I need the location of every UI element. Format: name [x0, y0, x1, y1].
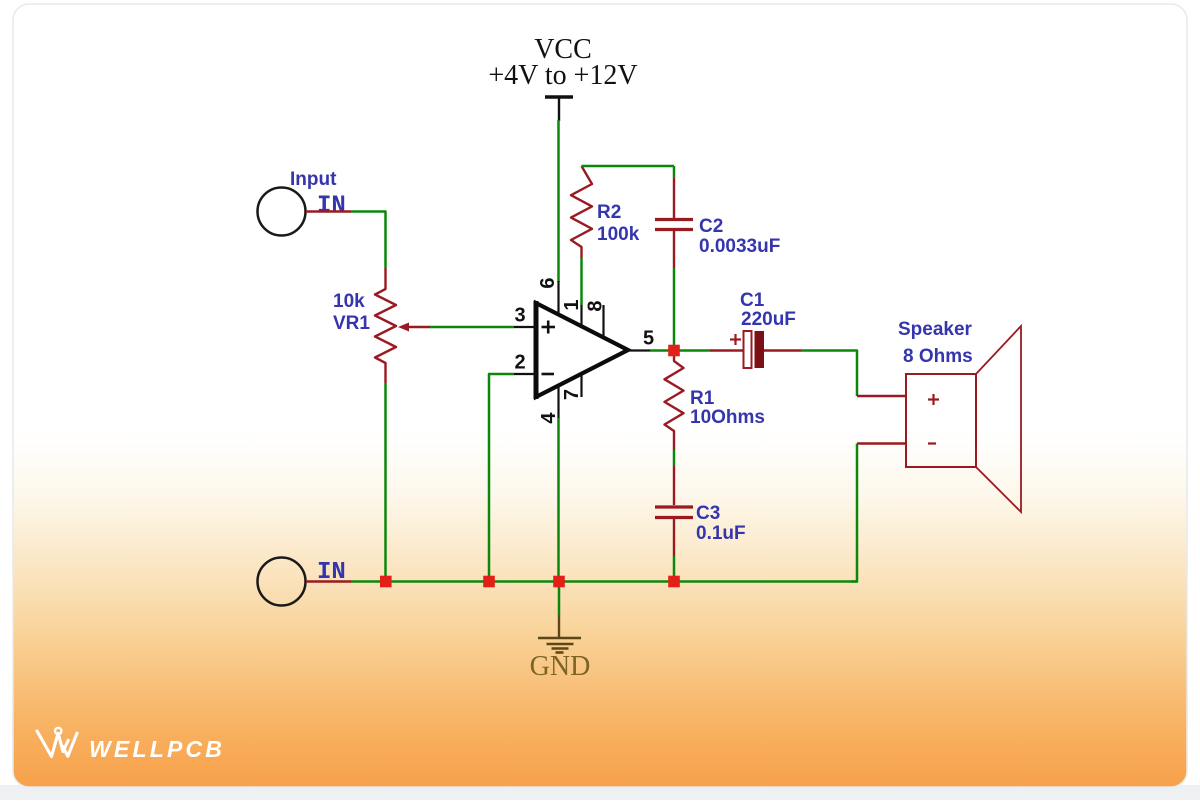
pin 1 stub [580, 304, 582, 326]
svg-text:5: 5 [643, 328, 654, 350]
input terminal circle top [258, 188, 306, 236]
node rail junction C3 [668, 576, 680, 588]
svg-text:C2: C2 [699, 216, 723, 237]
wire GND stem green [558, 582, 561, 616]
svg-text:2: 2 [514, 352, 525, 374]
wire top feedback horizontal [582, 165, 675, 168]
wire R1 to C3 [673, 450, 676, 466]
VR1 wiper arrow [398, 323, 430, 332]
wire pin 5 to node [650, 349, 669, 352]
wire pin 4 to rail [557, 418, 560, 582]
wire VCC vertical to pin 6 [557, 120, 560, 282]
op-amp plus mark [542, 321, 556, 334]
wire C1 to speaker corner [801, 351, 857, 397]
svg-text:+4V to +12V: +4V to +12V [488, 60, 637, 91]
node output junction [668, 345, 680, 357]
speaker cone [976, 326, 1021, 512]
capacitor C2 bottom lead [673, 231, 675, 268]
resistor R1 zigzag [665, 356, 684, 450]
wire C2 bottom to output node [673, 268, 676, 348]
wire speaker minus down to rail [851, 444, 857, 582]
pin 3 stub [514, 326, 536, 328]
wire pin 2 to rail [489, 374, 514, 582]
svg-text:0.1uF: 0.1uF [696, 523, 746, 544]
capacitor C3 top lead [673, 466, 675, 505]
node rail junction GND [553, 576, 565, 588]
ground symbol stem [558, 615, 560, 638]
capacitor C1 right lead [764, 349, 801, 351]
capacitor C2 top lead [673, 178, 675, 218]
C1 plus mark [730, 334, 741, 345]
svg-text:6: 6 [537, 277, 559, 288]
capacitor C1 left plate [744, 331, 752, 368]
input terminal circle bottom [258, 558, 306, 606]
wire node to C1 [679, 349, 710, 352]
node rail junction VR1 [380, 576, 392, 588]
speaker plus terminal mark [928, 394, 939, 405]
pin 5 stub [628, 349, 650, 351]
wire speaker minus red [857, 442, 906, 444]
svg-text:GND: GND [530, 651, 591, 682]
svg-text:Input: Input [290, 169, 337, 190]
svg-text:C3: C3 [696, 503, 720, 524]
op-amp minus mark [542, 373, 555, 376]
svg-text:100k: 100k [597, 224, 640, 245]
capacitor C1 right plate [755, 331, 765, 368]
ground symbol bars [538, 638, 581, 653]
svg-text:R2: R2 [597, 202, 621, 223]
speaker minus terminal mark [928, 442, 936, 444]
svg-text:0.0033uF: 0.0033uF [699, 236, 780, 257]
WellPCB logo W icon [37, 728, 77, 757]
wire pin 1 up to R2 [580, 258, 583, 305]
svg-text:7: 7 [561, 389, 583, 400]
svg-text:8 Ohms: 8 Ohms [903, 346, 973, 367]
wire input green to corner [351, 212, 386, 269]
svg-text:8: 8 [585, 300, 607, 311]
wire input red segment [306, 210, 351, 213]
node rail junction pin2 [483, 576, 495, 588]
wire wiper to pin 3 [430, 326, 514, 329]
capacitor C2 plates [655, 220, 693, 230]
capacitor C3 bottom lead [673, 519, 675, 556]
svg-text:4: 4 [538, 412, 560, 424]
capacitor C1 left lead [710, 349, 744, 351]
svg-text:3: 3 [514, 305, 525, 327]
svg-text:IN: IN [317, 193, 346, 220]
wire C3 to rail [673, 556, 676, 582]
pin 8 stub [602, 305, 604, 337]
svg-text:220uF: 220uF [741, 309, 796, 330]
svg-text:VR1: VR1 [333, 313, 370, 334]
svg-text:10k: 10k [333, 291, 365, 312]
potentiometer VR1 zigzag [375, 268, 396, 383]
op-amp U1 triangle [536, 301, 628, 399]
svg-text:C1: C1 [740, 290, 765, 311]
pin 2 stub [514, 373, 536, 375]
resistor R2 zigzag [571, 166, 592, 258]
svg-text:Speaker: Speaker [898, 319, 973, 340]
VCC power bar symbol [545, 97, 573, 121]
wire ground rail [351, 580, 857, 583]
wire speaker plus red [857, 395, 906, 397]
wire VR1 bottom to rail [384, 383, 387, 582]
svg-text:10Ohms: 10Ohms [690, 407, 765, 428]
wire bottom red segment [306, 580, 351, 582]
svg-text:1: 1 [561, 299, 583, 310]
pin 7 stub [580, 374, 582, 397]
speaker LS1 body [906, 374, 976, 467]
svg-text:WELLPCB: WELLPCB [89, 736, 225, 762]
pin 4 stub [557, 386, 559, 419]
wire C2 top [673, 166, 676, 178]
pin 6 stub [557, 281, 559, 314]
capacitor C3 plates [655, 507, 693, 518]
svg-text:R1: R1 [690, 388, 715, 409]
